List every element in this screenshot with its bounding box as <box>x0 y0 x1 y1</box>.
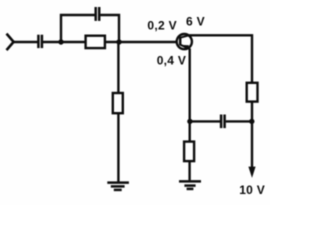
wire emitter down to R4 <box>188 49 190 142</box>
ground right <box>179 181 201 189</box>
wire input to C1 <box>13 41 37 43</box>
transistor Q1 base bar <box>179 37 182 46</box>
resistor R3 <box>247 83 258 102</box>
wire R4 to ground <box>188 161 190 180</box>
wire node A up to C2 <box>61 15 95 42</box>
node D junction dot <box>187 119 192 124</box>
wire collector to top right corner <box>189 35 252 83</box>
wire node B to transistor base <box>105 41 177 43</box>
wire C2 down to node B <box>100 15 119 42</box>
svg-text:0,4 V: 0,4 V <box>157 53 187 67</box>
wire node D to C3 <box>190 120 220 122</box>
resistor R4 <box>184 142 194 162</box>
supply arrow 10V <box>248 167 255 178</box>
wire C3 to node C <box>226 120 252 122</box>
capacitor C3 <box>221 115 225 129</box>
ground left <box>107 183 129 190</box>
transistor Q1 body <box>177 34 192 49</box>
wire R3 down to arrow <box>251 102 253 169</box>
input terminal <box>7 34 14 51</box>
capacitor C2 <box>96 7 100 21</box>
wire R2 to ground <box>117 113 119 181</box>
transistor Q1 emitter lead <box>180 45 190 49</box>
svg-text:10 V: 10 V <box>239 183 265 197</box>
svg-text:6 V: 6 V <box>186 14 205 28</box>
wire C1 to R1 <box>43 41 86 43</box>
wire node B down to R2 <box>117 42 119 93</box>
transistor Q1 emitter arrow <box>181 45 189 50</box>
node B junction dot <box>116 39 121 44</box>
resistor R2 <box>113 93 123 113</box>
resistor R1 <box>86 36 105 48</box>
transistor Q1 collector lead <box>180 35 189 37</box>
svg-text:0,2 V: 0,2 V <box>147 18 177 32</box>
node A junction dot <box>58 39 63 44</box>
node C junction dot <box>249 119 254 124</box>
capacitor C1 <box>38 35 42 48</box>
